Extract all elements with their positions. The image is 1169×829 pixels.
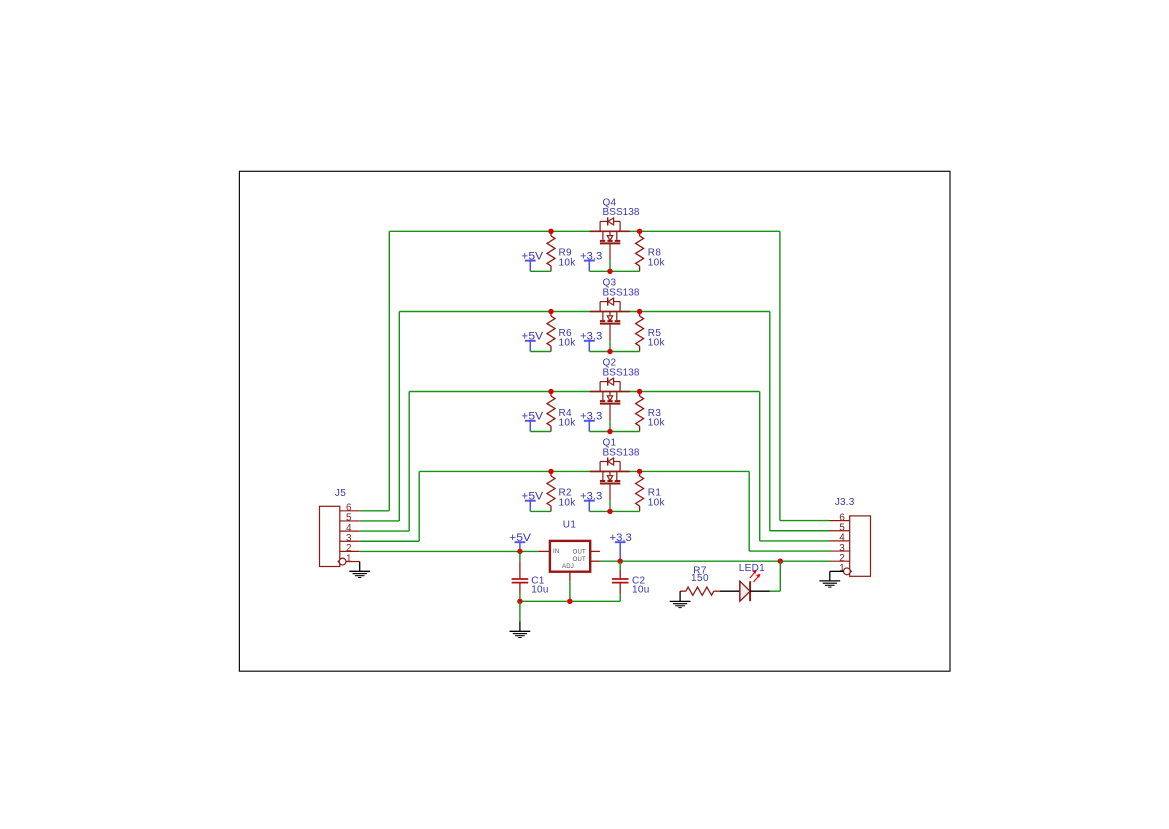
svg-text:+5V: +5V bbox=[521, 490, 544, 502]
wire U1 ADJ down bbox=[569, 581, 571, 601]
svg-text:OUT: OUT bbox=[573, 549, 586, 555]
wire J5 pin 4 to channel bbox=[360, 530, 410, 532]
diode LED1 bbox=[740, 570, 761, 601]
wire +3.3 rail to gate and R1 bottom bbox=[589, 510, 639, 512]
wire +3.3 rail to gate and R8 bottom bbox=[589, 270, 639, 272]
wire gate green segment Q1 bbox=[609, 501, 611, 511]
wire C1 node down to ground bbox=[519, 601, 521, 621]
wire J5 pin 3 to channel bbox=[360, 540, 420, 542]
svg-text:1: 1 bbox=[346, 553, 352, 564]
wire: level-shift channel Q4 horizontal net bbox=[389, 230, 780, 232]
svg-text:+3.3: +3.3 bbox=[580, 411, 602, 423]
resistor R4 10k (pull-up to +5V) bbox=[550, 392, 552, 397]
transistor Q3 BSS138 bbox=[590, 298, 630, 342]
svg-text:+3.3: +3.3 bbox=[580, 490, 602, 502]
wire: level-shift channel Q2 horizontal net bbox=[409, 391, 760, 393]
svg-text:10k: 10k bbox=[648, 497, 666, 508]
svg-text:+5V: +5V bbox=[521, 331, 544, 343]
wire +3.3 rail to gate and R5 bottom bbox=[589, 351, 639, 353]
ground (J5 pin 1) bbox=[359, 562, 361, 571]
wire R7 to ground bbox=[679, 591, 681, 601]
svg-text:10k: 10k bbox=[559, 497, 577, 508]
svg-text:BSS138: BSS138 bbox=[603, 287, 640, 298]
junction dots Q1 cell bbox=[548, 469, 553, 474]
wire +3.3 rail to gate and R3 bottom bbox=[589, 431, 639, 433]
junction node ADJ/gnd bbox=[567, 599, 572, 604]
resistor R6 10k (pull-up to +5V) bbox=[550, 312, 552, 317]
capacitor C1 10u bbox=[512, 561, 529, 594]
svg-text:+3.3: +3.3 bbox=[610, 532, 632, 544]
svg-text:150: 150 bbox=[691, 573, 709, 584]
wire +5V to R2 bottom bbox=[530, 510, 551, 512]
transistor Q2 BSS138 bbox=[590, 378, 630, 422]
wire gate green segment Q3 bbox=[609, 341, 611, 351]
svg-text:+5V: +5V bbox=[521, 250, 544, 262]
wire LED1 cathode bbox=[750, 590, 770, 592]
wire R7 to LED1 bbox=[720, 590, 740, 592]
svg-text:ADJ: ADJ bbox=[562, 564, 574, 570]
resistor R2 10k (pull-up to +5V) bbox=[550, 471, 552, 476]
svg-text:BSS138: BSS138 bbox=[603, 207, 640, 218]
svg-text:OUT: OUT bbox=[573, 557, 586, 563]
+5V supply symbol (U1 input) bbox=[515, 541, 526, 543]
svg-text:+5V: +5V bbox=[509, 532, 532, 544]
ground (C1/regulator) bbox=[510, 630, 531, 632]
junction node LED branch bbox=[778, 559, 783, 564]
junction dots Q4 cell bbox=[548, 229, 553, 234]
+5V supply symbol (Q2 cell) bbox=[525, 420, 536, 422]
svg-text:10u: 10u bbox=[632, 585, 650, 596]
wire +5V to R9 bottom bbox=[530, 270, 551, 272]
resistor R1 10k (pull-up to +3.3) bbox=[639, 471, 641, 476]
transistor Q4 BSS138 bbox=[590, 217, 630, 261]
wire C2 bottom bbox=[619, 594, 621, 601]
svg-text:10k: 10k bbox=[648, 257, 666, 268]
wire +5V node down bbox=[519, 551, 521, 561]
svg-text:10k: 10k bbox=[648, 338, 666, 349]
ground (R7) bbox=[670, 600, 691, 602]
+3.3 supply symbol (Q2 cell) bbox=[584, 420, 595, 422]
wire +5V to R4 bottom bbox=[530, 431, 551, 433]
svg-text:J5: J5 bbox=[335, 488, 346, 499]
svg-text:+5V: +5V bbox=[521, 411, 544, 423]
svg-text:10u: 10u bbox=[531, 585, 549, 596]
svg-text:U1: U1 bbox=[563, 520, 577, 531]
+5V supply symbol (Q3 cell) bbox=[525, 340, 536, 342]
resistor R3 10k (pull-up to +3.3) bbox=[639, 392, 641, 397]
svg-text:+3.3: +3.3 bbox=[580, 331, 602, 343]
connector J3.3 bbox=[830, 512, 871, 576]
svg-text:BSS138: BSS138 bbox=[603, 367, 640, 378]
svg-text:10k: 10k bbox=[559, 338, 577, 349]
op-amp U1 voltage regulator bbox=[538, 541, 600, 582]
wire: level-shift channel Q1 horizontal net bbox=[419, 470, 749, 472]
resistor R7 150 bbox=[680, 590, 686, 592]
ground (J3.3 pin 1) bbox=[819, 580, 840, 582]
svg-text:10k: 10k bbox=[648, 418, 666, 429]
wire gate green segment Q4 bbox=[609, 261, 611, 271]
junction node C1/gnd bbox=[517, 599, 522, 604]
svg-text:IN: IN bbox=[553, 549, 559, 555]
wire channel to J3.3 pin 4 bbox=[759, 392, 761, 541]
svg-text:BSS138: BSS138 bbox=[603, 447, 640, 458]
junction node +3.3/C2 bbox=[618, 559, 623, 564]
wire channel to J3.3 pin 6 bbox=[779, 231, 781, 520]
svg-text:J3.3: J3.3 bbox=[835, 497, 855, 508]
resistor R9 10k (pull-up to +5V) bbox=[550, 231, 552, 236]
transistor Q1 BSS138 bbox=[590, 457, 630, 501]
wire J5 pin 6 to channel bbox=[360, 510, 390, 512]
connector J5 bbox=[320, 503, 360, 567]
junction dots Q3 cell bbox=[548, 309, 553, 314]
svg-text:+3.3: +3.3 bbox=[580, 250, 602, 262]
svg-text:10k: 10k bbox=[559, 418, 577, 429]
wire +5V to R6 bottom bbox=[530, 351, 551, 353]
svg-text:LED1: LED1 bbox=[739, 563, 765, 574]
wire +3.3 node down bbox=[619, 561, 621, 570]
wire J5 pin 5 to channel bbox=[360, 520, 400, 522]
resistor R5 10k (pull-up to +3.3) bbox=[639, 312, 641, 317]
wire gate green segment Q2 bbox=[609, 421, 611, 431]
+5V supply symbol (Q1 cell) bbox=[525, 500, 536, 502]
+3.3 supply symbol (U1 output) bbox=[615, 541, 626, 543]
resistor R8 10k (pull-up to +3.3) bbox=[639, 231, 641, 236]
capacitor C2 10u bbox=[612, 570, 629, 594]
wire channel to J3.3 pin 5 bbox=[769, 312, 771, 531]
svg-text:10k: 10k bbox=[559, 257, 577, 268]
wire channel to J3.3 pin 3 bbox=[748, 471, 750, 551]
wire J5 pin2 +5V net to U1 IN bbox=[360, 550, 539, 552]
wire: level-shift channel Q3 horizontal net bbox=[399, 311, 770, 313]
+5V supply symbol (Q4 cell) bbox=[525, 260, 536, 262]
junction dots Q2 cell bbox=[548, 389, 553, 394]
wire U1 OUT +3.3 net to J3.3 pin2 bbox=[600, 560, 830, 562]
wire ground rail C1-ADJ-C2 bbox=[520, 600, 620, 602]
wire J3.3 pin1 to ground bbox=[830, 570, 844, 572]
+3.3 supply symbol (Q1 cell) bbox=[584, 500, 595, 502]
+3.3 supply symbol (Q3 cell) bbox=[584, 340, 595, 342]
junction node +5V/C1/U1 bbox=[517, 549, 522, 554]
+3.3 supply symbol (Q4 cell) bbox=[584, 260, 595, 262]
wire C1 bottom bbox=[519, 594, 521, 601]
wire LED branch up to +3.3 net bbox=[779, 561, 781, 591]
schematic frame border bbox=[239, 171, 950, 671]
